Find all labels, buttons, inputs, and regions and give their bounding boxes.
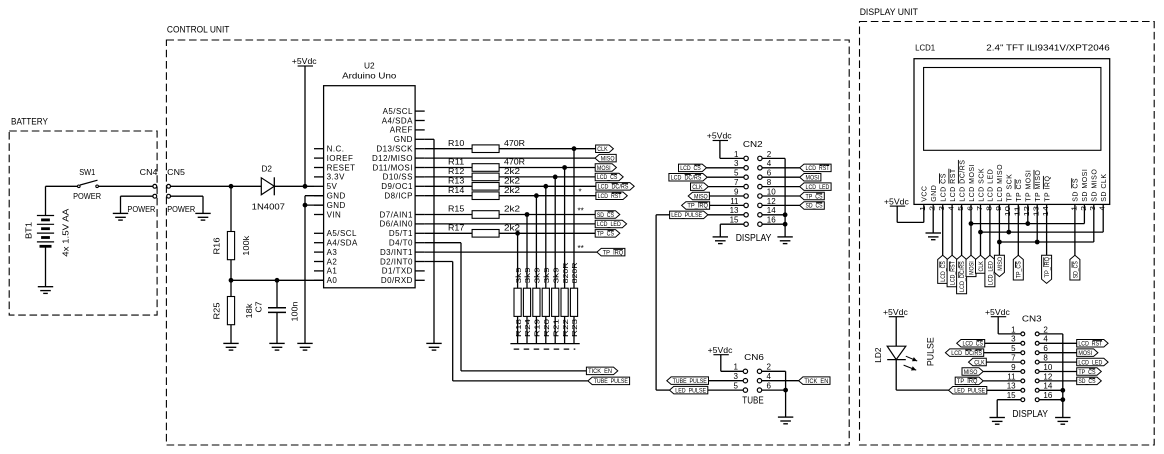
wire GND right to ground bbox=[425, 139, 434, 343]
node tap R23 bbox=[572, 146, 577, 151]
svg-text:A4/SDA: A4/SDA bbox=[382, 116, 413, 125]
svg-text:470R: 470R bbox=[504, 158, 525, 167]
svg-text:R19: R19 bbox=[533, 319, 542, 337]
wire CN6 pin4 TICK_EN bbox=[762, 380, 799, 382]
flag TICK_EN CN6 bbox=[799, 377, 830, 385]
svg-text:LED_PULSE: LED_PULSE bbox=[954, 388, 985, 395]
svg-text:SD_CS: SD_CS bbox=[806, 203, 823, 210]
svg-text:2k2: 2k2 bbox=[504, 205, 521, 214]
svg-text:+5Vdc: +5Vdc bbox=[292, 57, 317, 66]
battery BT1 bbox=[25, 186, 71, 286]
resistor R17 2k2 bbox=[425, 223, 596, 237]
resistor R13 2k2 bbox=[425, 176, 596, 190]
node tap R19 bbox=[534, 193, 539, 198]
svg-text:D0/RXD: D0/RXD bbox=[381, 276, 413, 285]
svg-text:D4/T0: D4/T0 bbox=[389, 239, 413, 248]
+5Vdc supply control unit bbox=[292, 57, 317, 186]
node R16 tap bbox=[229, 184, 234, 189]
svg-text:DISPLAY: DISPLAY bbox=[736, 232, 772, 244]
svg-text:D10/SS: D10/SS bbox=[383, 173, 413, 182]
svg-text:11: 11 bbox=[1007, 372, 1016, 381]
bus bank common bbox=[510, 344, 579, 350]
svg-text:C7: C7 bbox=[255, 301, 264, 313]
wire battery to switch bbox=[46, 185, 78, 187]
svg-text:A1: A1 bbox=[327, 267, 338, 276]
svg-text:2k2: 2k2 bbox=[504, 176, 521, 185]
svg-text:SD CLK: SD CLK bbox=[1101, 174, 1108, 202]
op IC U2 Arduino Uno bbox=[314, 61, 425, 287]
svg-text:LCD_CS: LCD_CS bbox=[963, 341, 984, 348]
svg-text:TP_CS: TP_CS bbox=[806, 193, 823, 200]
node tap R20 bbox=[543, 184, 548, 189]
svg-text:TP MISO: TP MISO bbox=[1035, 170, 1042, 202]
flag LCD_LED LCD bbox=[985, 255, 995, 286]
svg-text:SD_CS: SD_CS bbox=[1072, 261, 1079, 278]
svg-text:6: 6 bbox=[965, 206, 974, 211]
flag TP_CS LCD bbox=[1013, 255, 1023, 280]
flag SD_CS CN2 pin 12 bbox=[762, 202, 824, 210]
svg-text:TICK_EN: TICK_EN bbox=[588, 368, 612, 375]
svg-text:CN6: CN6 bbox=[744, 352, 764, 362]
wire CN6 pin2 ground rail bbox=[762, 371, 786, 417]
svg-text:LCD_LED: LCD_LED bbox=[806, 184, 830, 191]
svg-text:4: 4 bbox=[1043, 335, 1048, 344]
+5Vdc supply LCD bbox=[884, 197, 924, 222]
control unit frame bbox=[166, 24, 849, 445]
svg-text:+5Vdc: +5Vdc bbox=[883, 308, 908, 317]
flag LCD_RST LCD bbox=[947, 255, 957, 286]
svg-text:3k9: 3k9 bbox=[542, 267, 551, 283]
ground CN2 left bbox=[713, 237, 728, 244]
svg-text:LCD_LED: LCD_LED bbox=[597, 221, 621, 228]
svg-text:MOSI: MOSI bbox=[597, 165, 611, 172]
wire D3 TP_IRQ bbox=[425, 251, 597, 253]
svg-text:1: 1 bbox=[734, 363, 739, 372]
wire CN5 to diode D2 bbox=[171, 185, 262, 187]
svg-text:11: 11 bbox=[730, 197, 739, 206]
svg-text:8: 8 bbox=[984, 206, 993, 211]
svg-text:CLK: CLK bbox=[978, 261, 985, 272]
svg-text:BATTERY: BATTERY bbox=[11, 117, 48, 127]
svg-text:820R: 820R bbox=[570, 262, 579, 283]
ground C7 bbox=[269, 343, 284, 350]
flag LCD_LED bbox=[595, 220, 626, 228]
bus SCK net bbox=[978, 230, 1103, 235]
svg-text:TP_IRQ: TP_IRQ bbox=[687, 203, 708, 210]
svg-text:TP CS: TP CS bbox=[1016, 179, 1023, 202]
diode D2 1N4007 bbox=[252, 165, 286, 212]
flag MOSI bbox=[595, 164, 616, 172]
wire LED_PULSE CN2 to CN6 bbox=[656, 215, 670, 390]
svg-text:R21: R21 bbox=[551, 319, 560, 337]
svg-text:R13: R13 bbox=[448, 176, 465, 185]
svg-text:R12: R12 bbox=[448, 167, 465, 176]
display unit frame bbox=[860, 7, 1155, 445]
svg-text:CLK: CLK bbox=[974, 359, 985, 366]
svg-text:7: 7 bbox=[975, 206, 984, 211]
flag LCD_LED CN2 pin 8 bbox=[762, 183, 831, 191]
wire CN2 pin14 bbox=[762, 212, 788, 217]
svg-text:IOREF: IOREF bbox=[327, 154, 354, 163]
svg-text:LCD_RST: LCD_RST bbox=[1078, 341, 1102, 348]
capacitor C7 100n bbox=[255, 280, 300, 343]
svg-text:100n: 100n bbox=[290, 302, 299, 322]
svg-text:CN4: CN4 bbox=[140, 168, 158, 177]
svg-text:11: 11 bbox=[1013, 206, 1022, 216]
wire CN2 pin15 to ground bbox=[720, 224, 744, 237]
flag LCD_RST CN3 pin 4 bbox=[1039, 340, 1108, 348]
resistor R11 470R bbox=[425, 158, 596, 172]
svg-text:5: 5 bbox=[956, 206, 965, 211]
svg-text:R18: R18 bbox=[514, 319, 523, 337]
svg-text:PULSE: PULSE bbox=[926, 337, 936, 366]
svg-text:16: 16 bbox=[767, 216, 776, 225]
flag LCD_DC/RS LCD bbox=[957, 255, 967, 293]
svg-text:3.3V: 3.3V bbox=[327, 173, 345, 182]
svg-text:R17: R17 bbox=[448, 223, 465, 232]
wire LD2 to LED_PULSE bbox=[896, 389, 948, 391]
svg-text:13: 13 bbox=[1007, 382, 1016, 391]
flag TP_IRQ CN2 pin 11 bbox=[682, 202, 745, 210]
wire CN3 pin15 to ground bbox=[997, 400, 1021, 418]
wire CN2 pin2 to ground rail bbox=[762, 158, 785, 237]
wire CN3 pin16 bbox=[1039, 397, 1065, 402]
svg-text:AREF: AREF bbox=[390, 126, 413, 135]
svg-text:3: 3 bbox=[734, 159, 739, 168]
svg-text:CN5: CN5 bbox=[167, 168, 185, 177]
svg-text:7: 7 bbox=[1011, 354, 1016, 363]
flag TP_CS CN3 pin 10 bbox=[1039, 368, 1101, 376]
svg-text:CLK: CLK bbox=[692, 184, 703, 191]
svg-text:SW1: SW1 bbox=[79, 168, 96, 177]
flag TICK_EN bbox=[586, 367, 617, 375]
svg-text:TP_IRQ: TP_IRQ bbox=[957, 378, 978, 385]
svg-text:R15: R15 bbox=[448, 205, 465, 214]
svg-text:SD MISO: SD MISO bbox=[1092, 169, 1099, 202]
svg-text:U2: U2 bbox=[364, 61, 375, 70]
flag TUBE_PULSE CN6 pin 3 bbox=[667, 377, 744, 385]
svg-text:12: 12 bbox=[767, 197, 776, 206]
svg-text:9: 9 bbox=[994, 206, 1003, 211]
svg-text:TP_IRQ: TP_IRQ bbox=[603, 249, 624, 256]
svg-text:LCD_RST: LCD_RST bbox=[806, 165, 830, 172]
svg-text:LCD_DC/RS: LCD_DC/RS bbox=[598, 184, 629, 191]
svg-text:BT1: BT1 bbox=[25, 221, 34, 239]
svg-text:100k: 100k bbox=[242, 235, 251, 256]
svg-text:2k2: 2k2 bbox=[504, 186, 521, 195]
ground CN2 right bbox=[777, 237, 792, 244]
svg-text:POWER: POWER bbox=[167, 205, 195, 214]
svg-text:D5/T1: D5/T1 bbox=[389, 229, 413, 238]
svg-text:R23: R23 bbox=[570, 319, 579, 337]
flag CLK bbox=[596, 145, 614, 153]
battery unit frame bbox=[9, 117, 157, 315]
svg-text:R14: R14 bbox=[448, 186, 465, 195]
svg-text:D7/AIN1: D7/AIN1 bbox=[380, 210, 413, 219]
svg-text:3k9: 3k9 bbox=[514, 267, 523, 283]
svg-text:3k9: 3k9 bbox=[533, 267, 542, 283]
svg-text:5: 5 bbox=[734, 382, 739, 391]
ground arduino right bbox=[426, 343, 441, 350]
flag LCD_CS CN2 pin 3 bbox=[679, 164, 745, 172]
svg-text:GND: GND bbox=[394, 135, 413, 144]
svg-text:GND: GND bbox=[327, 201, 346, 210]
svg-text:A3: A3 bbox=[327, 248, 338, 257]
svg-text:CN2: CN2 bbox=[743, 139, 763, 149]
svg-text:1: 1 bbox=[734, 150, 739, 159]
svg-text:5V: 5V bbox=[327, 182, 338, 191]
wire D2 to TUBE_PULSE bbox=[425, 262, 588, 381]
svg-text:2: 2 bbox=[928, 206, 937, 211]
connector CN4 bbox=[140, 168, 158, 198]
svg-text:A4/SDA: A4/SDA bbox=[327, 239, 358, 248]
svg-text:820R: 820R bbox=[561, 262, 570, 283]
flag LED_PULSE CN3 pin 13 bbox=[949, 387, 1021, 395]
resistor R18 3k9 bbox=[514, 233, 523, 343]
label TUBE CN6 bbox=[742, 395, 763, 407]
flag SD_CS CN3 pin 12 bbox=[1039, 377, 1101, 385]
ground R25 bbox=[223, 343, 238, 350]
resistor R20 3k9 bbox=[542, 186, 551, 343]
flag MISO CN2 pin 9 bbox=[688, 192, 744, 200]
flag LCD_CS CN3 pin 3 bbox=[957, 340, 1021, 348]
svg-text:3: 3 bbox=[1011, 335, 1016, 344]
connector CN3 bbox=[1007, 313, 1053, 401]
flag LCD_CS LCD bbox=[938, 255, 948, 283]
svg-text:3: 3 bbox=[937, 206, 946, 211]
svg-text:LCD1: LCD1 bbox=[915, 43, 936, 52]
resistor R24 3k9 bbox=[523, 215, 532, 344]
svg-text:D1/TXD: D1/TXD bbox=[382, 267, 413, 276]
svg-text:LCD DC/RS: LCD DC/RS bbox=[959, 160, 966, 202]
svg-text:RESET: RESET bbox=[327, 163, 356, 172]
wire CN3 pin2 to ground rail bbox=[1039, 334, 1063, 418]
flag TP_IRQ CN3 pin 11 bbox=[955, 377, 1021, 385]
svg-text:MOSI: MOSI bbox=[1078, 350, 1092, 357]
resistor R19 3k9 bbox=[533, 196, 542, 344]
svg-text:LCD_LED: LCD_LED bbox=[987, 261, 994, 285]
svg-text:10: 10 bbox=[1043, 363, 1052, 372]
resistor R10 470R bbox=[425, 139, 596, 153]
svg-text:4: 4 bbox=[767, 372, 772, 381]
svg-text:SD CS: SD CS bbox=[1073, 178, 1080, 202]
bus MOSI net bbox=[969, 221, 1085, 226]
svg-text:+5Vdc: +5Vdc bbox=[708, 346, 733, 355]
svg-text:TICK_EN: TICK_EN bbox=[804, 378, 828, 385]
wire D6 LCD_LED bbox=[425, 223, 596, 225]
flag SD_CS bbox=[578, 206, 620, 219]
flag LED_PULSE CN6 pin 5 bbox=[670, 386, 744, 394]
svg-text:MISO: MISO bbox=[997, 257, 1004, 271]
svg-text:R20: R20 bbox=[542, 319, 551, 337]
flag TP_IRQ bbox=[578, 244, 625, 257]
svg-text:1: 1 bbox=[1011, 325, 1016, 334]
svg-text:LCD MISO: LCD MISO bbox=[997, 164, 1004, 202]
svg-text:LCD MOSI: LCD MOSI bbox=[969, 164, 976, 202]
svg-text:1: 1 bbox=[918, 206, 927, 211]
flag TP_CS CN2 pin 10 bbox=[762, 192, 824, 200]
ground CN4 POWER bbox=[113, 205, 156, 220]
svg-text:LCD_DC/RS: LCD_DC/RS bbox=[959, 261, 966, 292]
svg-text:LED_PULSE: LED_PULSE bbox=[671, 212, 702, 219]
resistor R14 2k2 bbox=[425, 186, 596, 200]
svg-text:A5/SCL: A5/SCL bbox=[383, 107, 413, 116]
svg-text:D6/AIN0: D6/AIN0 bbox=[380, 220, 413, 229]
svg-text:8: 8 bbox=[767, 178, 772, 187]
flag MISO LCD bbox=[994, 255, 1004, 276]
svg-text:12: 12 bbox=[1043, 372, 1052, 381]
svg-text:1: 1 bbox=[1069, 206, 1078, 211]
svg-text:DISPLAY UNIT: DISPLAY UNIT bbox=[860, 7, 919, 17]
svg-text:SD_CS: SD_CS bbox=[597, 212, 614, 219]
ground battery bbox=[38, 287, 53, 294]
node tap R24 bbox=[525, 212, 530, 217]
svg-text:MOSI: MOSI bbox=[806, 175, 820, 182]
wires LCD pin columns bbox=[943, 204, 1103, 255]
node divider A0 bbox=[229, 278, 234, 283]
svg-text:LCD CS: LCD CS bbox=[941, 173, 948, 202]
svg-text:D9/OC1: D9/OC1 bbox=[381, 182, 413, 191]
svg-text:9: 9 bbox=[1011, 363, 1016, 372]
label DISPLAY CN2 bbox=[736, 232, 772, 244]
svg-text:3k9: 3k9 bbox=[551, 267, 560, 283]
svg-text:SD MOSI: SD MOSI bbox=[1082, 169, 1089, 202]
svg-text:2: 2 bbox=[767, 150, 772, 159]
ground CN6 bbox=[778, 417, 793, 424]
flag LCD_RST CN2 pin 4 bbox=[762, 164, 831, 172]
svg-text:10: 10 bbox=[1003, 206, 1012, 216]
svg-text:DISPLAY: DISPLAY bbox=[1012, 408, 1048, 420]
svg-text:13: 13 bbox=[1032, 206, 1041, 216]
ground CN3 right bbox=[1055, 418, 1070, 425]
svg-text:LCD_RST: LCD_RST bbox=[950, 261, 957, 285]
svg-text:4: 4 bbox=[947, 206, 956, 211]
wire CN3 pin14 bbox=[1039, 388, 1065, 393]
svg-text:D3/INT1: D3/INT1 bbox=[380, 248, 413, 257]
wire LCD GND bbox=[932, 204, 934, 233]
node tap R21 bbox=[553, 175, 558, 180]
svg-text:LCD SCK: LCD SCK bbox=[978, 168, 985, 202]
svg-text:TP IRQ: TP IRQ bbox=[1044, 176, 1051, 202]
svg-text:3: 3 bbox=[1088, 206, 1097, 211]
svg-text:R25: R25 bbox=[213, 302, 222, 320]
ground CN3 left bbox=[990, 418, 1005, 425]
svg-text:2.4" TFT ILI9341V/XPT2046: 2.4" TFT ILI9341V/XPT2046 bbox=[986, 43, 1110, 52]
wire divider to A0 bbox=[231, 279, 324, 281]
svg-text:VCC: VCC bbox=[922, 186, 929, 202]
svg-text:4: 4 bbox=[1098, 206, 1107, 211]
wire CN2 pin16 bbox=[762, 222, 788, 227]
svg-text:+5Vdc: +5Vdc bbox=[884, 197, 909, 206]
node tap R18 bbox=[515, 231, 520, 236]
svg-text:14: 14 bbox=[1041, 206, 1050, 216]
svg-text:13: 13 bbox=[730, 206, 739, 215]
svg-text:1N4007: 1N4007 bbox=[252, 202, 286, 211]
svg-text:470R: 470R bbox=[504, 139, 525, 148]
svg-text:LED_PULSE: LED_PULSE bbox=[675, 387, 706, 394]
svg-text:TP SCK: TP SCK bbox=[1007, 174, 1014, 202]
svg-text:MISO: MISO bbox=[964, 369, 978, 376]
svg-text:LCD_CS: LCD_CS bbox=[597, 174, 618, 181]
svg-text:R10: R10 bbox=[448, 139, 465, 148]
wire GND pins to ground bbox=[305, 196, 324, 344]
svg-text:POWER: POWER bbox=[127, 205, 155, 214]
flag MISO CN3 pin 9 bbox=[962, 368, 1021, 376]
svg-text:Arduino Uno: Arduino Uno bbox=[342, 72, 397, 81]
svg-text:LCD_LED: LCD_LED bbox=[1078, 359, 1102, 366]
connector CN2 bbox=[730, 139, 777, 227]
svg-text:N.C.: N.C. bbox=[327, 145, 345, 154]
svg-text:TP MOSI: TP MOSI bbox=[1026, 170, 1033, 202]
svg-text:LCD_DC/RS: LCD_DC/RS bbox=[951, 350, 982, 357]
svg-text:7: 7 bbox=[734, 178, 739, 187]
svg-text:TP_CS: TP_CS bbox=[1016, 261, 1023, 278]
+5Vdc supply CN6 bbox=[708, 346, 744, 371]
flag CLK LCD bbox=[976, 255, 986, 273]
flag MISO bbox=[595, 154, 616, 162]
svg-text:R16: R16 bbox=[213, 237, 222, 255]
svg-text:6: 6 bbox=[1043, 344, 1048, 353]
svg-text:LCD_CS: LCD_CS bbox=[940, 261, 947, 282]
resistor R12 2k2 bbox=[425, 167, 596, 181]
flag CLK CN3 pin 7 bbox=[969, 358, 1021, 366]
svg-text:6: 6 bbox=[767, 382, 772, 391]
svg-text:SD_CS: SD_CS bbox=[1078, 378, 1095, 385]
LED LD2 bbox=[874, 308, 936, 390]
resistor R21 3k9 bbox=[551, 177, 560, 344]
svg-text:MISO: MISO bbox=[694, 193, 708, 200]
flag LED_PULSE CN2 pin 13 bbox=[670, 211, 745, 219]
svg-text:15: 15 bbox=[730, 216, 739, 225]
svg-text:10: 10 bbox=[767, 187, 776, 196]
ground CN5 POWER bbox=[167, 205, 211, 220]
+5Vdc supply CN2 bbox=[707, 132, 744, 159]
svg-text:D11/MOSI: D11/MOSI bbox=[373, 163, 413, 172]
svg-text:LD2: LD2 bbox=[874, 347, 883, 363]
svg-text:TUBE: TUBE bbox=[742, 395, 763, 407]
flag LCD_LED CN3 pin 8 bbox=[1039, 358, 1108, 366]
flag MOSI LCD bbox=[966, 255, 976, 276]
connector CN5 bbox=[167, 168, 186, 198]
flag SD_CS LCD bbox=[1070, 255, 1080, 280]
flag LCD_DC/RS CN3 pin 5 bbox=[945, 349, 1021, 357]
svg-text:4: 4 bbox=[767, 159, 772, 168]
svg-text:MOSI: MOSI bbox=[968, 261, 975, 275]
svg-text:LCD_CS: LCD_CS bbox=[680, 165, 701, 172]
svg-text:LCD RST: LCD RST bbox=[950, 168, 957, 202]
flag CLK CN2 pin 7 bbox=[691, 183, 745, 191]
resistor R22 820R bbox=[561, 168, 570, 344]
node C7 tap bbox=[275, 278, 280, 283]
svg-text:5: 5 bbox=[734, 169, 739, 178]
svg-text:GND: GND bbox=[327, 192, 346, 201]
svg-text:CN3: CN3 bbox=[1022, 313, 1042, 323]
svg-text:VIN: VIN bbox=[327, 210, 342, 219]
svg-text:2: 2 bbox=[767, 363, 772, 372]
svg-text:14: 14 bbox=[767, 206, 776, 215]
svg-text:5: 5 bbox=[1011, 344, 1016, 353]
flag TP_CS bbox=[595, 230, 620, 238]
ground LCD bbox=[926, 233, 942, 240]
flag TUBE_PULSE bbox=[588, 377, 630, 385]
svg-text:+5Vdc: +5Vdc bbox=[707, 132, 732, 141]
bus MISO net bbox=[997, 240, 1094, 245]
wire CN4 power return bbox=[121, 196, 153, 213]
svg-text:CONTROL UNIT: CONTROL UNIT bbox=[167, 24, 230, 34]
flag LCD_DC/RS CN2 pin 5 bbox=[669, 174, 744, 182]
resistor R23 820R bbox=[570, 149, 579, 344]
svg-text:14: 14 bbox=[1043, 382, 1052, 391]
